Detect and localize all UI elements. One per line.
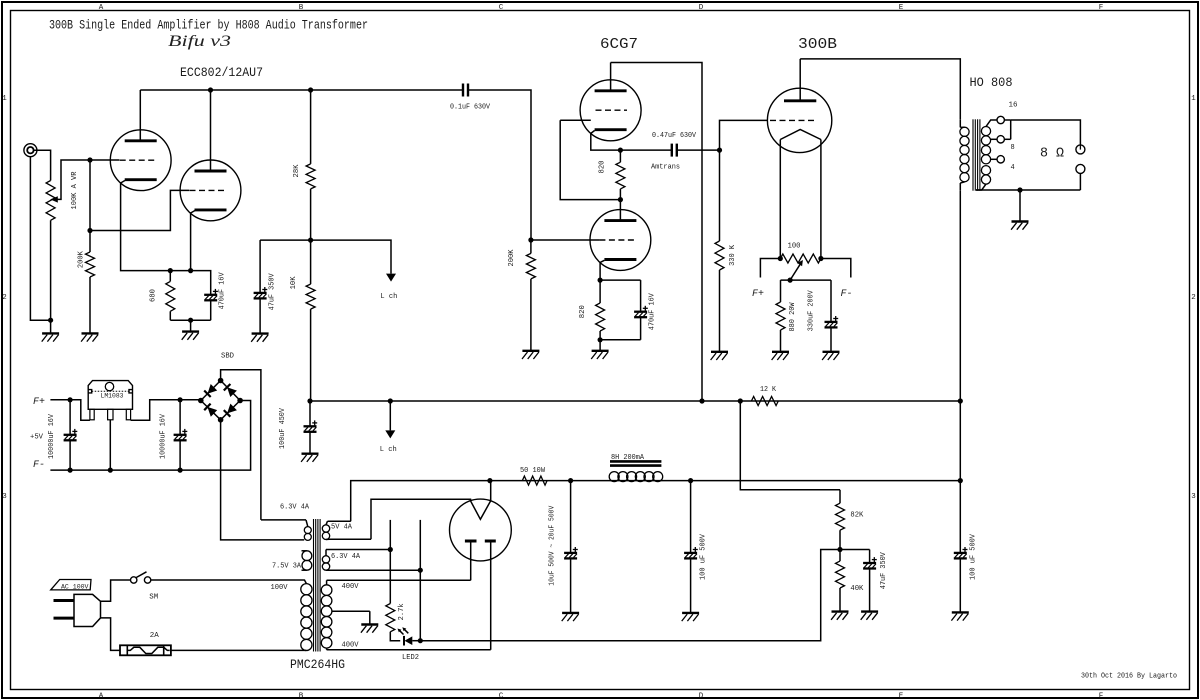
- wire heater stub 2: [419, 520, 421, 570]
- junction V1b plate rail: [208, 87, 213, 92]
- resistor 330K: [715, 241, 724, 270]
- svg-text:2: 2: [1191, 294, 1196, 302]
- svg-text:10000uF 16V: 10000uF 16V: [160, 413, 168, 459]
- svg-text:0.47uF 630V: 0.47uF 630V: [652, 132, 697, 140]
- junction rail 12K left: [738, 398, 743, 403]
- wire cap to 6CG7 grid line: [468, 90, 531, 240]
- capacitor 0.47uF 630V: [672, 144, 677, 157]
- wire 28K top: [310, 90, 312, 164]
- wire filter rail: [490, 480, 960, 482]
- wire heater 1 down: [389, 550, 391, 604]
- wire L ch tap 2: [389, 401, 391, 430]
- junction hum pot right: [818, 256, 823, 261]
- wire 5V riser: [351, 481, 490, 522]
- OPT secondary winding: [981, 127, 990, 185]
- svg-text:6.3V 4A: 6.3V 4A: [280, 504, 310, 512]
- wire fuse to primary: [171, 649, 304, 651]
- wire OPT primary bottom: [959, 191, 961, 401]
- resistor 200K input: [86, 252, 95, 277]
- junction heater 1: [388, 547, 393, 552]
- wire 6CG7 B+ rail: [611, 63, 702, 402]
- wire V1b cathode: [191, 211, 195, 271]
- junction second cap: [688, 478, 693, 483]
- svg-text:16: 16: [1009, 102, 1018, 110]
- wire HV top to left plate: [327, 579, 471, 581]
- svg-text:LM1083: LM1083: [101, 392, 124, 399]
- wire 2.7k to LED: [390, 632, 400, 641]
- svg-text:5V 4A: 5V 4A: [331, 524, 353, 532]
- wire cap to 330K node: [677, 149, 720, 151]
- svg-text:D: D: [699, 4, 704, 12]
- wire 470uF 6CG7 leads: [640, 280, 642, 312]
- resistor 820 upper: [616, 162, 625, 189]
- junction 330K node: [717, 148, 722, 153]
- wire 10K bottom: [310, 309, 312, 401]
- wire tap 16: [986, 120, 1011, 127]
- svg-text:1: 1: [2, 95, 7, 103]
- wire V2b grid lead: [531, 239, 600, 241]
- wire 12K node down: [740, 401, 840, 490]
- winding 6.3V 4A right: [322, 550, 421, 571]
- svg-text:100: 100: [788, 243, 801, 251]
- svg-text:3: 3: [1191, 493, 1196, 501]
- wire V2b plate lead: [619, 200, 621, 221]
- ground 47uF first: [251, 334, 268, 342]
- svg-text:300B: 300B: [798, 36, 837, 53]
- wire 200K top: [89, 231, 91, 253]
- junction F- cap2: [178, 468, 183, 473]
- svg-text:4: 4: [1011, 164, 1015, 172]
- wire V1b plate lead: [210, 90, 212, 171]
- wire 330uF bottom: [830, 327, 832, 351]
- plug prong top: [54, 599, 75, 602]
- svg-text:F-: F-: [33, 460, 45, 471]
- svg-text:F+: F+: [752, 289, 764, 300]
- svg-text:680: 680: [150, 289, 158, 302]
- junction divider: [837, 547, 842, 552]
- wire jack to VR top: [34, 150, 51, 180]
- junction 200K grid node: [528, 237, 533, 242]
- junction grid V1a: [87, 157, 92, 162]
- svg-text:300B Single Ended Amplifier by: 300B Single Ended Amplifier by H808 Audi…: [49, 19, 368, 33]
- triode V1b ECC802: [180, 160, 241, 221]
- ground right cap: [951, 612, 968, 620]
- resistor 200K 6CG7: [526, 253, 535, 279]
- regulator LM1083: [88, 381, 132, 420]
- wire VR bottom to ground node: [50, 220, 52, 320]
- wire V2a grid lead: [560, 119, 591, 121]
- plug prong bottom: [54, 617, 75, 620]
- wire 680 leads: [169, 271, 171, 282]
- wire 820 ground stem: [599, 340, 601, 351]
- capacitor 100uF 450V: [304, 420, 318, 431]
- junction F- cap1: [68, 468, 73, 473]
- junction bridge left: [198, 398, 204, 404]
- wire 300B plate rail to OPT: [800, 59, 960, 119]
- svg-text:A: A: [99, 693, 104, 700]
- svg-text:A: A: [99, 4, 104, 12]
- speaker jack plus: [1076, 145, 1085, 154]
- svg-text:2.7k: 2.7k: [398, 603, 406, 620]
- junction rectifier output: [487, 478, 492, 483]
- wire plug bottom to fuse: [101, 618, 121, 651]
- wire 10K top: [310, 240, 312, 284]
- capacitor 47uF 350V psu: [863, 557, 877, 568]
- svg-text:470uF 16V: 470uF 16V: [649, 292, 657, 330]
- wire heater 2 down: [419, 570, 421, 641]
- wire LM1083 out: [131, 400, 201, 421]
- capacitor 47uF 350V first: [254, 287, 268, 298]
- junction rail 100uF450V: [307, 398, 312, 403]
- wire F- stub 300B: [821, 259, 851, 278]
- svg-text:Amtrans: Amtrans: [651, 163, 680, 171]
- winding 5V 4A: [322, 521, 371, 539]
- svg-text:3: 3: [2, 493, 7, 501]
- wire cathode ground stem: [190, 320, 192, 331]
- resistor 2.7k: [386, 604, 395, 632]
- wire 300B filament right: [820, 140, 822, 259]
- resistor 12K: [751, 397, 778, 406]
- wire 330uF top: [830, 280, 832, 322]
- wire node down to V1b grid branch: [89, 160, 91, 231]
- junction cathode ground: [188, 318, 193, 323]
- capacitor 330uF 200V: [825, 316, 839, 327]
- ground 330K: [711, 352, 728, 360]
- junction heater 2: [418, 568, 423, 573]
- junction rail 6CG7 drop: [699, 398, 704, 403]
- svg-text:200K: 200K: [508, 249, 516, 267]
- wire to V1b grid: [90, 190, 189, 230]
- arrow L ch 1: [386, 274, 396, 282]
- junction rail OPT: [958, 398, 963, 403]
- svg-text:2A: 2A: [150, 632, 160, 640]
- svg-text:SBD: SBD: [221, 353, 234, 361]
- VR wiper arrow: [50, 196, 58, 202]
- wire left plate lead: [470, 541, 472, 580]
- wire V2b cathode lead: [600, 260, 604, 280]
- svg-text:100uF 450V: 100uF 450V: [279, 407, 287, 449]
- svg-text:40K: 40K: [850, 585, 864, 593]
- capacitor 10000uF 16V b: [174, 429, 188, 440]
- svg-text:B: B: [299, 4, 304, 12]
- ground 40K: [831, 612, 848, 620]
- svg-text:47uF 350V: 47uF 350V: [268, 273, 276, 311]
- svg-text:100 uF 500V: 100 uF 500V: [699, 533, 707, 580]
- svg-text:8 Ω: 8 Ω: [1040, 147, 1064, 162]
- wire 820 lower leads: [599, 280, 601, 303]
- terminal 16: [997, 116, 1004, 123]
- wire 82K bottom: [839, 530, 841, 549]
- ground 880: [772, 352, 789, 360]
- junction V1b cathode: [188, 268, 193, 273]
- svg-text:12 K: 12 K: [760, 386, 777, 394]
- wire LED anode: [412, 640, 420, 642]
- wire jack sleeve down: [30, 157, 50, 321]
- wire HV centertap: [369, 611, 371, 624]
- ground cathode V1: [182, 332, 199, 340]
- wire cap bottom: [210, 300, 212, 320]
- wire divider to cap: [840, 549, 870, 551]
- wire cap2 leads: [179, 400, 181, 435]
- terminal 8: [997, 136, 1004, 143]
- tube 300B: [767, 88, 831, 152]
- resistor 50 10W: [522, 476, 547, 485]
- ground input: [42, 333, 59, 341]
- svg-text:E: E: [899, 4, 904, 12]
- wire 47uF top: [259, 240, 261, 293]
- wire cap1 leads: [69, 400, 71, 435]
- resistor 40K: [836, 561, 845, 588]
- wire 5V top to rectifier: [328, 520, 351, 522]
- resistor 10K: [306, 284, 315, 309]
- junction LED node: [418, 638, 423, 643]
- svg-text:+5V: +5V: [30, 434, 44, 442]
- svg-text:8: 8: [1011, 144, 1015, 152]
- svg-text:820: 820: [579, 305, 587, 318]
- wire 100uF450 bottom: [309, 432, 311, 454]
- svg-text:6CG7: 6CG7: [600, 36, 638, 53]
- svg-text:Bifu v3: Bifu v3: [168, 33, 231, 50]
- wire 28K to node: [310, 189, 312, 240]
- flag AC 100V: [51, 580, 91, 590]
- resistor 680: [166, 281, 175, 311]
- svg-text:330uF 200V: 330uF 200V: [807, 289, 815, 331]
- wire 200K 6CG7 top: [530, 240, 532, 253]
- svg-text:100V: 100V: [271, 584, 289, 592]
- ground 820 6CG7: [591, 351, 608, 359]
- wire cathode rail: [170, 271, 210, 295]
- junction bridge bottom: [218, 417, 224, 423]
- svg-text:330 K: 330 K: [729, 244, 737, 266]
- svg-text:B: B: [299, 693, 304, 700]
- wire B+ rail 12AU7: [140, 89, 462, 91]
- winding 100V primary: [301, 580, 312, 651]
- winding 7.5V 3A: [302, 551, 312, 570]
- wire right cap bottom: [959, 558, 961, 612]
- hum pot wiper: [790, 262, 801, 280]
- capacitor 470uF 16V 6CG7: [634, 306, 648, 317]
- svg-text:8H 200mA: 8H 200mA: [611, 454, 645, 462]
- ground OPT: [1011, 222, 1028, 230]
- wire F+ stub 300B: [760, 259, 780, 278]
- capacitor 0.1uF 630V: [463, 84, 468, 97]
- triode V2a 6CG7 upper: [580, 80, 641, 141]
- svg-text:F+: F+: [33, 397, 45, 408]
- svg-text:100 uF 500V: 100 uF 500V: [970, 533, 978, 580]
- wire cathode to cap 470uF: [600, 279, 641, 281]
- wire tap 8: [991, 120, 1011, 139]
- wire psu cap leads: [869, 550, 871, 564]
- wire 47uF bottom: [259, 298, 261, 333]
- wire V2a grid to lower plate: [560, 120, 620, 199]
- svg-text:82K: 82K: [850, 512, 864, 520]
- choke 8H 200mA: [609, 461, 663, 481]
- wire LM1083 adj: [109, 420, 111, 470]
- wire F+ rail left: [50, 400, 90, 421]
- svg-text:L ch: L ch: [380, 293, 397, 301]
- wire rect filament right: [490, 481, 492, 501]
- wire 200K bottom: [89, 277, 91, 333]
- svg-text:E: E: [899, 693, 904, 700]
- ground second cap: [682, 613, 699, 621]
- svg-text:0.1uF 630V: 0.1uF 630V: [450, 104, 491, 112]
- svg-text:F: F: [1099, 4, 1104, 12]
- svg-text:880 20W: 880 20W: [789, 302, 797, 332]
- wire 200K 6CG7 bottom: [530, 279, 532, 351]
- input jack J1: [24, 144, 37, 157]
- svg-text:PMC264HG: PMC264HG: [290, 657, 345, 672]
- junction OPT ground: [1017, 187, 1022, 192]
- speaker jack minus: [1076, 164, 1085, 173]
- wire 40K leads: [839, 550, 841, 562]
- junction cap2 F+: [178, 397, 183, 402]
- wire V1a cathode: [121, 181, 171, 271]
- junction SRPP output: [618, 148, 623, 153]
- wire heater stub 1: [389, 520, 391, 550]
- ground HV centertap: [361, 625, 378, 633]
- svg-text:100K A VR: 100K A VR: [71, 171, 79, 210]
- terminal 4: [997, 156, 1004, 163]
- svg-text:2: 2: [2, 294, 7, 302]
- ground first cap: [562, 613, 579, 621]
- svg-text:400V: 400V: [342, 583, 360, 591]
- junction plate node V1b: [308, 238, 313, 243]
- wire tap 4: [991, 158, 997, 160]
- wire grid V1a: [90, 159, 119, 161]
- svg-text:30th Oct 2016 By Lagarto: 30th Oct 2016 By Lagarto: [1081, 673, 1177, 681]
- wire L ch tap 1: [311, 240, 391, 274]
- potentiometer VR1 100K A VR: [46, 181, 55, 221]
- bridge rectifier SBD: [201, 381, 240, 420]
- capacitor 10uF-20uF 500V: [564, 547, 578, 558]
- resistor 880 20W: [776, 302, 785, 330]
- wire OPT secondary bottom: [976, 173, 1080, 190]
- wire second cap leads: [690, 481, 692, 553]
- ground 100uF450: [301, 454, 318, 462]
- wire SRPP out to cap: [620, 149, 671, 151]
- capacitor 470uF 16V first stage: [204, 289, 218, 300]
- wire 100uF450 top: [309, 401, 311, 426]
- junction grid V1b branch: [87, 228, 92, 233]
- triode V2b 6CG7 lower: [590, 210, 651, 271]
- svg-text:400V: 400V: [342, 642, 360, 650]
- wire bridge top to winding: [221, 370, 261, 520]
- junction V2b cathode: [598, 278, 603, 283]
- wire plug top to switch: [101, 580, 131, 601]
- svg-text:200K: 200K: [78, 250, 86, 268]
- wire 820 upper leads: [619, 150, 621, 162]
- svg-text:47uF 350V: 47uF 350V: [880, 551, 888, 589]
- ground 330uF: [822, 352, 839, 360]
- wire to 300B grid: [720, 120, 768, 150]
- svg-text:7.5V 3A: 7.5V 3A: [272, 563, 302, 571]
- junction cathode node 300B: [788, 278, 793, 283]
- junction 28K rail: [308, 87, 313, 92]
- winding 400V HV: [321, 580, 369, 650]
- fuse 2A: [120, 645, 171, 655]
- svg-text:820: 820: [599, 161, 607, 174]
- svg-text:LED2: LED2: [402, 654, 419, 662]
- svg-text:28K: 28K: [293, 164, 301, 178]
- winding 6.3V 4A left: [261, 520, 311, 541]
- wire bias line: [420, 550, 840, 641]
- svg-text:10uF 500V ~ 20uF 500V: 10uF 500V ~ 20uF 500V: [549, 505, 557, 586]
- wire OPT riser down: [959, 401, 961, 553]
- junction cap1 F+: [68, 397, 73, 402]
- capacitor 10000uF 16V a: [64, 429, 78, 440]
- junction L ch 2: [388, 398, 393, 403]
- junction 820 ground: [598, 337, 603, 342]
- junction bridge top: [218, 378, 224, 384]
- triode V1a ECC802: [110, 130, 171, 191]
- junction 680 top: [168, 268, 173, 273]
- resistor 28K: [306, 164, 315, 189]
- svg-text:1: 1: [1191, 95, 1196, 103]
- svg-text:6.3V 4A: 6.3V 4A: [331, 553, 361, 561]
- junction first cap: [568, 478, 573, 483]
- svg-text:50 10W: 50 10W: [520, 467, 546, 475]
- wire right plate lead: [490, 541, 492, 650]
- ground psu cap: [861, 612, 878, 620]
- wire cathode bottom rail 6CG7: [600, 339, 641, 341]
- wire HV bottom to right plate: [327, 649, 491, 651]
- svg-text:HO 808: HO 808: [970, 76, 1013, 90]
- wire 82K top: [839, 490, 841, 503]
- wire 300B filament left: [779, 140, 781, 259]
- svg-text:10000uF 16V: 10000uF 16V: [48, 413, 56, 459]
- wire cathode row 300B: [781, 279, 832, 281]
- svg-text:C: C: [499, 4, 504, 12]
- wire 880 top: [780, 280, 782, 302]
- wire ground stem input: [50, 320, 52, 333]
- OPT core: [973, 119, 980, 190]
- svg-text:470uF 16V: 470uF 16V: [218, 272, 226, 310]
- ground 200K 6CG7: [522, 351, 539, 359]
- junction input ground: [48, 318, 53, 323]
- wire switch to primary: [151, 579, 304, 581]
- resistor 82K: [836, 503, 845, 530]
- wire B+ rail: [310, 400, 960, 402]
- svg-text:AC 100V: AC 100V: [61, 584, 89, 592]
- wire first cap leads: [570, 481, 572, 553]
- svg-text:F: F: [1099, 693, 1104, 700]
- LED LED2: [398, 627, 413, 645]
- wire V1a plate lead: [139, 90, 141, 141]
- capacitor 100uF 500V mid: [684, 547, 698, 558]
- wire V2a plate lead: [610, 63, 612, 91]
- svg-text:F-: F-: [841, 289, 853, 300]
- AC plug body: [74, 594, 101, 626]
- capacitor 100uF 500V right: [954, 547, 968, 558]
- OPT primary winding: [960, 119, 969, 190]
- wire F- rail: [50, 401, 250, 471]
- junction filter to OPT riser: [958, 478, 963, 483]
- wire cathode bottom rail: [170, 319, 210, 321]
- svg-text:C: C: [499, 693, 504, 700]
- wire 5V bottom to filament: [371, 499, 471, 539]
- switch SM: [131, 572, 151, 583]
- resistor 820 lower: [596, 303, 605, 331]
- wire V2a cathode lead: [591, 131, 621, 151]
- wire 330K bottom: [719, 270, 721, 352]
- wire OPT ground stem: [1019, 190, 1021, 222]
- svg-text:10K: 10K: [290, 276, 298, 290]
- wire 880 bottom: [780, 330, 782, 352]
- svg-text:SM: SM: [149, 594, 158, 602]
- wire bridge bottom to winding: [221, 420, 305, 540]
- junction lower plate: [618, 197, 623, 202]
- wire OPT hot to speaker jack: [1011, 120, 1081, 145]
